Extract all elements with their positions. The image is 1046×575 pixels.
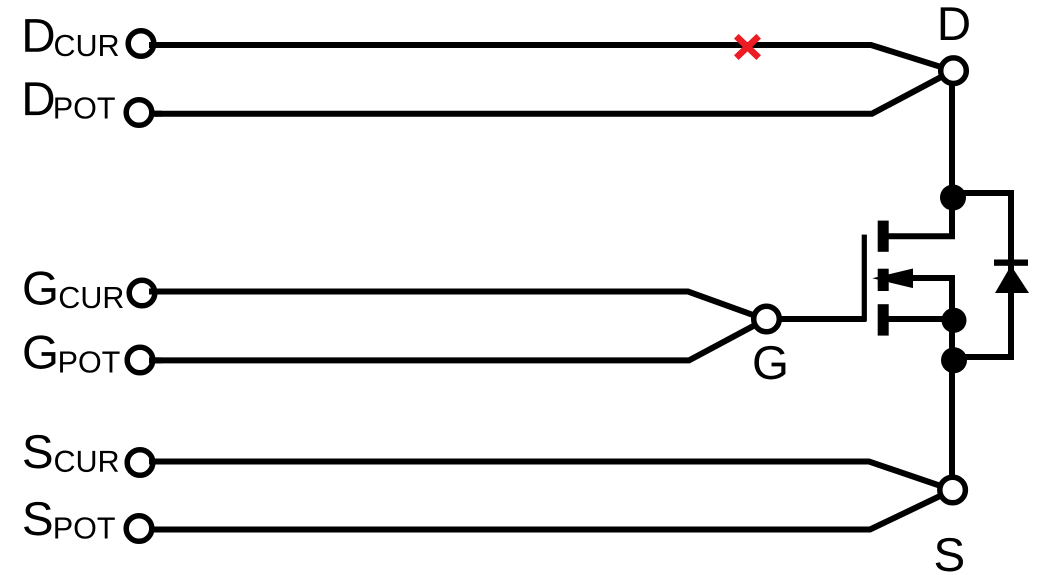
red X fault mark on Dcur wire: [736, 36, 758, 57]
label Scur sub: "CUR": [55, 451, 118, 473]
label Scur S: "S": [24, 435, 51, 469]
label Gcur sub: "CUR": [60, 287, 123, 309]
wire Spot horizontal + slant to node S: [148, 490, 953, 530]
label Spot sub: "POT": [55, 517, 115, 539]
label Gpot G: "G": [24, 335, 55, 369]
wire stub into Dcur terminal: [149, 42, 162, 48]
label node G label: "G": [754, 346, 785, 380]
label Dpot D: "D": [25, 82, 53, 115]
wire Dpot horizontal + slant to node D: [148, 71, 953, 114]
wire stub into Scur terminal: [149, 459, 162, 465]
terminal circle Spot: [126, 516, 152, 542]
junction dot source: [942, 308, 967, 333]
wire body-diode branch: top, right vertical, bottom: [953, 193, 1011, 357]
wire Scur horizontal + slant to node S: [148, 462, 953, 491]
wire stub into Dpot terminal: [149, 111, 162, 117]
wire body arrow to source junction: [910, 278, 952, 300]
transistor Q1 body arrow: [872, 269, 913, 289]
label Gcur G: "G": [24, 271, 55, 305]
node S circle: [940, 477, 966, 503]
junction dot drain-diode: [940, 185, 966, 211]
label Spot S: "S": [24, 502, 51, 536]
wire stub into Spot terminal: [149, 527, 162, 533]
wire Gpot horizontal + slant to node G: [148, 320, 766, 361]
node G circle: [754, 306, 780, 332]
transistor Q1 gate bar: [862, 235, 867, 322]
terminal circle Gcur: [129, 280, 155, 306]
diode D1 triangle: [995, 266, 1029, 294]
transistor Q1 source channel bar: [878, 304, 889, 335]
wire Gcur horizontal + slant to node G: [148, 292, 766, 320]
wire stub into Gcur terminal: [149, 289, 162, 295]
wire drain: MOSFET drain up to node D: [883, 71, 952, 236]
wire stub into Gpot terminal: [149, 357, 162, 363]
label node D label: "D": [941, 7, 969, 40]
terminal circle Gpot: [127, 347, 153, 373]
label Dpot sub: "POT": [55, 97, 115, 119]
transistor Q1 drain channel bar: [878, 221, 889, 252]
diode D1 cathode bar: [994, 260, 1028, 266]
label Dcur D: "D": [25, 19, 53, 52]
transistor Q1 body channel bar: [878, 269, 889, 291]
junction dot source-diode: [941, 347, 967, 373]
terminal circle Dpot: [126, 100, 152, 126]
node D circle: [941, 58, 967, 84]
wire gate: node G to gate bar: [766, 316, 867, 322]
terminal circle Scur: [127, 450, 153, 476]
label node S label: "S": [936, 538, 963, 572]
label Dcur sub: "CUR": [55, 35, 118, 57]
wire Dcur horizontal + slant to node D: [148, 45, 953, 71]
terminal circle Dcur: [128, 31, 154, 57]
label Gpot sub: "POT": [60, 351, 120, 373]
wire source vertical: body corner through dots to node S: [949, 278, 955, 490]
wire source: MOSFET source to junction: [886, 316, 952, 322]
